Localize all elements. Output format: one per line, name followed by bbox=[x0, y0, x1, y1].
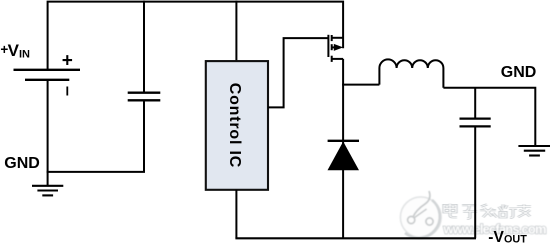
channel segment middle bbox=[331, 44, 333, 50]
control IC U1 box bbox=[206, 61, 268, 190]
battery V1 plus plate bbox=[14, 69, 81, 71]
body lead bbox=[332, 46, 335, 48]
transistor Q1 mosfet bbox=[328, 35, 343, 62]
wire gate drive from IC to mosfet bbox=[268, 38, 328, 107]
wire left ground rail bbox=[47, 171, 145, 173]
battery V1 minus plate bbox=[25, 79, 69, 81]
channel segment bottom bbox=[331, 56, 333, 62]
ground right bbox=[518, 146, 550, 156]
svg-text:GND: GND bbox=[4, 155, 40, 172]
wire input cap top branch bbox=[143, 1, 145, 93]
svg-text:+: + bbox=[62, 51, 73, 72]
svg-text:-V: -V bbox=[488, 229, 504, 246]
svg-text:IN: IN bbox=[19, 48, 30, 60]
battery minus tick bbox=[66, 87, 68, 96]
svg-text:GND: GND bbox=[501, 64, 537, 81]
channel segment top bbox=[331, 35, 333, 41]
diode D1 body bbox=[328, 142, 360, 171]
source stub bbox=[332, 58, 343, 60]
capacitor C2 top plate bbox=[460, 117, 491, 119]
label +VIN bbox=[0, 41, 30, 60]
wire input cap bottom lead bbox=[143, 100, 145, 172]
ground left bbox=[32, 186, 63, 196]
mosfet body arrow bbox=[334, 44, 343, 51]
gate bar bbox=[327, 35, 329, 57]
wire battery negative lead bbox=[47, 80, 49, 186]
wire control IC top branch bbox=[235, 1, 237, 62]
watermark logo circle bbox=[400, 191, 441, 238]
wire control IC bottom lead bbox=[235, 190, 237, 239]
wire mosfet source to diode and output node bbox=[342, 59, 344, 238]
wire top rail from battery to mosfet drain bbox=[48, 2, 344, 70]
label -VOUT bbox=[488, 229, 527, 246]
capacitor C2 output top lead bbox=[474, 88, 476, 119]
capacitor C1 input top plate bbox=[128, 92, 161, 94]
drain stub bbox=[332, 37, 343, 39]
svg-text:OUT: OUT bbox=[504, 233, 527, 245]
inductor L1 bbox=[379, 59, 443, 87]
capacitor C1 input bottom plate bbox=[128, 99, 161, 101]
svg-text:V: V bbox=[8, 41, 20, 60]
wire output cap bottom lead bbox=[474, 126, 476, 238]
watermark chinese text bbox=[444, 204, 531, 219]
wire right ground rail bbox=[443, 88, 535, 146]
svg-text:Control IC: Control IC bbox=[226, 83, 243, 168]
wire bottom -Vout rail bbox=[235, 237, 476, 239]
diode D1 cathode bar bbox=[328, 140, 359, 142]
wire switch node to inductor bbox=[342, 84, 379, 86]
capacitor C2 bottom plate bbox=[460, 125, 491, 127]
